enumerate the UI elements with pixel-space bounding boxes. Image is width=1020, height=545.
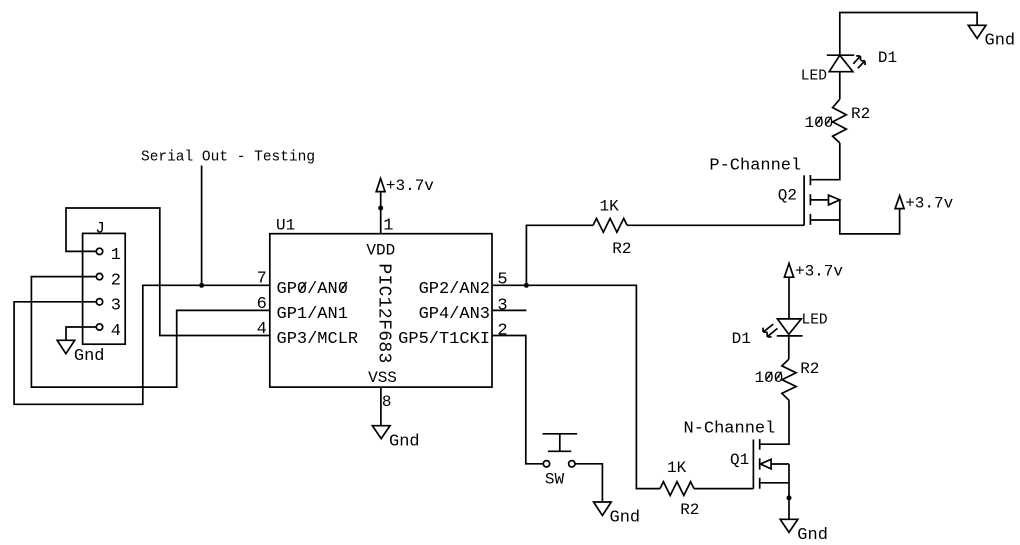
LED D1 lower wire from supply <box>788 277 790 319</box>
svg-text:R2: R2 <box>851 105 870 123</box>
svg-text:GP0/AN0: GP0/AN0 <box>277 280 348 299</box>
connector J pin 2 circle <box>96 273 102 279</box>
wire GP4 pin3 stub <box>492 309 526 311</box>
ground symbol Q1 source <box>780 519 798 532</box>
transistor Q2 body arrow <box>829 195 840 205</box>
svg-text:6: 6 <box>257 295 267 314</box>
power symbol +3.7v U1 <box>376 178 385 191</box>
slashed zeros overlay <box>300 117 832 381</box>
ground symbol VSS <box>372 426 390 439</box>
svg-text:LED: LED <box>801 69 827 85</box>
LED D1 upper arrows <box>853 56 860 64</box>
wire net J2 to GP1/AN1 <box>31 277 269 388</box>
svg-text:1K: 1K <box>667 459 687 477</box>
svg-text:GP3/MCLR: GP3/MCLR <box>277 330 359 349</box>
wire net GP2 pin5 to Q1 gate <box>492 285 660 488</box>
junction dot VDD <box>378 206 383 211</box>
LED D1 lower cathode bar <box>777 336 803 359</box>
svg-text:1: 1 <box>383 216 393 235</box>
svg-text:+3.7v: +3.7v <box>795 263 843 281</box>
svg-text:100: 100 <box>755 369 784 387</box>
svg-text:R2: R2 <box>612 240 631 258</box>
resistor R2 1K (upper) <box>593 218 627 232</box>
svg-text:8: 8 <box>382 393 392 411</box>
svg-text:Q1: Q1 <box>730 451 749 469</box>
svg-text:VSS: VSS <box>368 369 397 387</box>
svg-text:4: 4 <box>257 320 267 339</box>
junction dot pin5 branch <box>524 283 529 288</box>
svg-text:PIC12F683: PIC12F683 <box>374 263 394 363</box>
svg-text:Q2: Q2 <box>778 186 797 204</box>
connector J pin 1 circle <box>96 248 102 254</box>
connector J pin 3 circle <box>96 299 102 305</box>
wire 1K to Q1 gate <box>694 488 753 490</box>
transistor Q2 source wires <box>810 200 899 234</box>
resistor R2 1K (lower) <box>660 482 694 496</box>
wire net J3 to GP0/AN0 <box>14 285 270 404</box>
svg-text:GP5/T1CKI: GP5/T1CKI <box>398 330 490 349</box>
transistor Q2 drain wire <box>810 143 839 180</box>
svg-text:5: 5 <box>497 270 507 289</box>
svg-text:7: 7 <box>257 270 267 289</box>
IC U1 body <box>270 234 492 387</box>
transistor Q1 body arrow <box>760 459 771 469</box>
wire J4 to ground <box>66 327 96 340</box>
svg-text:3: 3 <box>497 296 507 315</box>
svg-text:D1: D1 <box>878 49 897 67</box>
svg-text:2: 2 <box>497 321 507 340</box>
svg-text:Gnd: Gnd <box>610 509 641 528</box>
wire serial out vertical <box>201 166 203 286</box>
junction dot serial/GP0 <box>199 283 204 288</box>
transistor Q1 channel bars <box>759 439 761 489</box>
svg-text:VDD: VDD <box>366 241 395 259</box>
junction dot Q1 source <box>787 495 792 500</box>
svg-text:LED: LED <box>802 312 828 328</box>
transistor Q2 body wire <box>810 199 828 201</box>
svg-text:3: 3 <box>111 297 121 316</box>
ground symbol switch <box>594 502 612 516</box>
LED D1 upper triangle <box>829 55 853 71</box>
power symbol +3.7v LED lower <box>784 263 793 277</box>
svg-text:P-Channel: P-Channel <box>709 157 801 176</box>
wire branch pin5 up to Q2 gate <box>526 225 593 285</box>
resistor R2 100 (upper vertical) <box>833 99 847 142</box>
svg-text:100: 100 <box>805 114 834 132</box>
svg-text:1K: 1K <box>600 197 620 215</box>
ground symbol J4 <box>57 340 74 353</box>
LED D1 lower arrows <box>763 324 773 332</box>
svg-text:Gnd: Gnd <box>797 526 828 545</box>
LED D1 upper wire to resistor <box>839 72 841 100</box>
svg-text:J: J <box>95 219 105 237</box>
wire U1 pin8 VSS <box>380 387 382 426</box>
svg-text:2: 2 <box>111 272 121 291</box>
svg-text:R2: R2 <box>800 360 819 378</box>
LED D1 lower triangle <box>777 319 801 335</box>
wire U1 pin1 VDD <box>380 192 382 234</box>
switch SW actuator <box>543 434 578 452</box>
transistor Q2 P-channel gate bar <box>803 175 805 225</box>
wire LED top to ground rail <box>840 13 977 56</box>
wire switch to ground <box>575 464 602 502</box>
transistor Q1 body and source wires <box>760 464 789 519</box>
svg-text:Serial Out - Testing: Serial Out - Testing <box>141 150 315 166</box>
svg-text:+3.7v: +3.7v <box>386 177 434 195</box>
resistor R2 100 (lower vertical) <box>782 359 796 400</box>
svg-text:D1: D1 <box>732 330 751 348</box>
svg-text:GP4/AN3: GP4/AN3 <box>419 305 490 324</box>
transistor Q1 drain wire <box>760 400 789 444</box>
svg-text:Gnd: Gnd <box>389 432 420 451</box>
svg-text:+3.7v: +3.7v <box>905 194 953 212</box>
transistor Q2 channel bars <box>809 175 811 225</box>
wire net J1 to GP3/MCLR loop <box>66 208 270 336</box>
connector J pin 4 circle <box>96 324 102 330</box>
svg-text:Gnd: Gnd <box>985 31 1016 50</box>
svg-text:4: 4 <box>111 322 121 341</box>
svg-text:GP1/AN1: GP1/AN1 <box>277 305 348 324</box>
wire net GP5 pin2 to switch <box>492 336 543 464</box>
connector J body <box>83 233 126 344</box>
svg-text:GP2/AN2: GP2/AN2 <box>419 280 490 299</box>
wire 1K to Q2 gate <box>627 224 804 226</box>
svg-text:Gnd: Gnd <box>74 347 105 366</box>
svg-text:1: 1 <box>111 246 121 265</box>
svg-text:U1: U1 <box>276 216 295 234</box>
svg-text:R2: R2 <box>680 501 699 519</box>
LED D1 upper cathode bar <box>827 54 854 56</box>
transistor Q1 N-channel gate bar <box>752 440 754 489</box>
switch SW terminal circles <box>543 461 549 467</box>
svg-text:N-Channel: N-Channel <box>684 420 776 439</box>
power symbol +3.7v Q2 source <box>895 196 904 209</box>
ground symbol top right <box>968 25 986 38</box>
svg-text:SW: SW <box>545 470 565 488</box>
